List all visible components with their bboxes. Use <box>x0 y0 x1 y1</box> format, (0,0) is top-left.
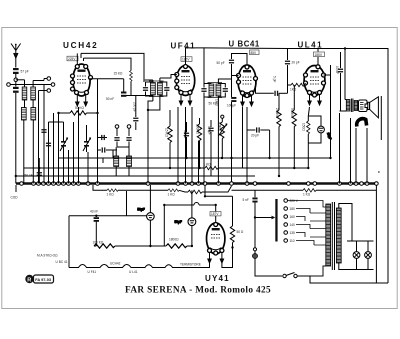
svg-text:185V: 185V <box>182 58 190 62</box>
svg-text:U L41: U L41 <box>129 270 138 274</box>
capacitor 20pF right <box>285 49 318 94</box>
wire long row 168 <box>24 167 309 169</box>
svg-text:TERMISTORE: TERMISTORE <box>180 263 201 267</box>
capacitor 100pF cathode <box>227 67 236 184</box>
wire IF2 plate feed <box>186 48 205 86</box>
switch mains <box>283 273 297 278</box>
tube UY41 <box>207 223 225 264</box>
svg-text:1 KΩ: 1 KΩ <box>204 163 212 167</box>
wire grid row 122 <box>49 121 64 123</box>
svg-text:M.A.97KΩ·OΩ: M.A.97KΩ·OΩ <box>37 254 58 258</box>
wire selector feed <box>255 218 272 236</box>
selector labels <box>290 199 299 243</box>
capacitor 25uF electrolytic <box>308 116 332 143</box>
capacitor 43nF <box>90 210 99 222</box>
svg-text:85V: 85V <box>251 51 258 55</box>
voltage selector contacts <box>284 199 288 243</box>
resistor 15K screen <box>114 71 153 96</box>
wire UY41 feed <box>164 185 232 223</box>
capacitor 5.6pF coupling <box>256 76 288 96</box>
wire col 88 <box>87 152 89 184</box>
svg-text:1800Ω: 1800Ω <box>169 238 179 242</box>
svg-text:R: R <box>27 277 31 283</box>
wire UBC41 pins down <box>243 107 248 184</box>
svg-text:FA 97-03: FA 97-03 <box>35 277 52 282</box>
main ground bus <box>16 182 375 184</box>
wire filament heater chain <box>69 248 233 268</box>
node COD ground <box>11 185 19 200</box>
svg-text:57 pF: 57 pF <box>21 70 29 74</box>
capacitor IF1 left <box>143 80 153 101</box>
svg-text:100 KΩ: 100 KΩ <box>93 241 104 245</box>
svg-text:5 pF: 5 pF <box>273 76 277 82</box>
svg-text:185V: 185V <box>315 53 323 57</box>
power transformer <box>326 202 341 270</box>
osc coil stack <box>114 147 132 176</box>
wire vertical col 53 <box>53 113 55 184</box>
svg-text:135: 135 <box>290 231 296 235</box>
svg-text:1MΩ: 1MΩ <box>215 99 219 106</box>
svg-text:10 nF: 10 nF <box>335 66 339 74</box>
svg-text:UF41: UF41 <box>171 42 197 51</box>
svg-text:1 KΩ: 1 KΩ <box>107 192 115 196</box>
capacitor on col 44 <box>41 129 46 133</box>
capacitor IF2 right <box>218 76 238 184</box>
svg-text:225V: 225V <box>68 57 76 61</box>
tube UF41 <box>175 65 195 106</box>
capacitor 50nF screen bypass <box>89 79 126 97</box>
resistor 1M vertical <box>215 99 219 106</box>
capacitor 20pF plate <box>247 127 270 158</box>
wire HT row 190 <box>93 185 376 190</box>
wire long row 158 <box>59 65 331 158</box>
wire IF1 bottom <box>148 101 160 184</box>
resistor 1K dropper A <box>107 189 119 196</box>
resistor 200K vertical <box>196 118 202 168</box>
capacitor on col 48 <box>46 143 51 147</box>
wire B+ top rail UCH42 <box>77 53 144 82</box>
tube UBC41 <box>237 65 258 106</box>
svg-text:180: 180 <box>290 207 296 211</box>
resistor 100K <box>93 241 115 249</box>
wire col 68 <box>68 150 70 184</box>
wire transformer secondary top <box>339 204 352 270</box>
selector arrow <box>272 216 276 220</box>
voltage label 185V <box>181 57 192 62</box>
wire bottom left loop <box>69 191 150 268</box>
wire smoothing loop <box>163 205 165 246</box>
wire col 97 <box>97 113 99 184</box>
resistor 15K vertical <box>165 110 173 168</box>
wire UF41 pins down <box>178 107 199 184</box>
tube UL41 <box>304 65 326 105</box>
antenna coil primary <box>16 80 27 108</box>
wire B+ rail right <box>318 49 388 284</box>
voltage label 187V <box>210 212 221 217</box>
svg-text:50 Ω: 50 Ω <box>237 230 244 234</box>
antenna <box>11 44 21 68</box>
svg-text:20 pF: 20 pF <box>292 61 300 65</box>
svg-text:50 pF: 50 pF <box>217 61 225 65</box>
capacitor 50nF lower left <box>25 158 42 184</box>
wire right columns to bus <box>340 112 374 184</box>
capacitor 100pF mid <box>208 120 214 176</box>
capacitor 5nF mains <box>243 190 258 217</box>
resistor 150 ohm cathode <box>302 121 311 168</box>
capacitor IF2 left <box>201 84 211 184</box>
logo badge FA 97-03 <box>25 275 53 284</box>
wire col 73 tube cathode <box>73 122 75 184</box>
svg-text:COD: COD <box>11 196 19 200</box>
speaker horn curve <box>357 119 367 127</box>
resistor 500K vertical <box>290 85 296 168</box>
svg-text:1 KΩ: 1 KΩ <box>303 193 311 197</box>
svg-text:FAR SERENA - Mod. Romolo: FAR SERENA - Mod. Romolo 425 <box>125 286 271 296</box>
svg-text:UCH42: UCH42 <box>63 41 98 50</box>
svg-text:220 V: 220 V <box>290 199 299 203</box>
resistor 50 ohm UY41 <box>230 196 244 247</box>
capacitor 200pF <box>132 96 138 131</box>
wire mains bottom <box>253 196 376 276</box>
resistor 1800 ohm <box>150 238 192 249</box>
resistor 1K AVC series <box>204 163 219 170</box>
capacitor osc grid <box>98 147 118 163</box>
voltage label 185V at UL41 <box>314 52 325 57</box>
resistor 6.8K volume pot <box>218 122 222 132</box>
capacitor 50uF first <box>137 185 154 246</box>
voltage label 85V <box>250 50 260 55</box>
capacitor padder <box>98 135 118 140</box>
tuning capacitor variable 1 <box>60 122 68 184</box>
tube UCH42 <box>71 64 93 106</box>
svg-text:5 nF: 5 nF <box>243 198 249 202</box>
coil lower right <box>31 108 36 184</box>
capacitor 57pF <box>13 68 29 79</box>
IF transformer 1 <box>149 81 164 97</box>
svg-text:187V: 187V <box>211 212 219 216</box>
svg-text:43 nF: 43 nF <box>90 210 98 214</box>
output transformer <box>324 65 358 112</box>
terminal circles aerial <box>7 77 55 184</box>
svg-text:UY41: UY41 <box>205 274 230 283</box>
wire col 78 tube filament <box>78 107 80 184</box>
speaker magnet block <box>359 100 368 112</box>
wire col 231 <box>231 76 233 97</box>
svg-text:1 KΩ: 1 KΩ <box>168 192 176 196</box>
capacitor IF1 right <box>160 75 177 105</box>
wire selector taps <box>288 201 326 246</box>
wire mains right <box>297 186 388 284</box>
svg-text:50 nF: 50 nF <box>106 97 114 101</box>
capacitor antenna series <box>13 82 19 184</box>
wire vertical col 58 <box>58 113 60 184</box>
wire vertical col 48 <box>48 122 50 184</box>
svg-text:50μF: 50μF <box>175 220 182 224</box>
capacitor 50uF second <box>175 190 196 246</box>
svg-text:U BC 41: U BC 41 <box>56 260 68 264</box>
resistor 50K osc <box>59 106 98 115</box>
pickup jack <box>378 96 381 172</box>
svg-text:15 KΩ: 15 KΩ <box>114 72 124 76</box>
dial lamps <box>347 241 374 270</box>
bus junction circles <box>20 182 379 186</box>
svg-text:50μF: 50μF <box>137 207 144 211</box>
node antenna junction <box>14 78 18 82</box>
wire UL41 pins down <box>308 107 319 127</box>
wire long row 176 <box>16 175 255 177</box>
svg-text:140: 140 <box>290 223 296 227</box>
capacitor 300pF <box>183 122 189 158</box>
svg-text:50 KΩ: 50 KΩ <box>75 106 85 110</box>
resistor 1K dropper B <box>168 189 180 196</box>
svg-text:20 pF: 20 pF <box>251 134 259 138</box>
selector bar <box>275 199 277 242</box>
svg-text:110: 110 <box>290 239 295 243</box>
svg-text:U F41: U F41 <box>88 270 97 274</box>
capacitor 10nF output <box>335 52 343 99</box>
svg-text:U BC41: U BC41 <box>229 40 260 49</box>
volume potentiometer <box>218 115 227 158</box>
wire osc section <box>97 79 99 113</box>
coil lower left <box>21 108 26 184</box>
wire B+ top rail mid <box>204 47 288 50</box>
capacitor 70pF <box>217 54 248 184</box>
svg-text:160: 160 <box>290 215 296 219</box>
speaker cone <box>368 97 379 118</box>
resistor 1K dropper C2 <box>179 182 233 194</box>
lamp L1 <box>353 252 360 259</box>
resistor grid UL41 <box>288 83 306 92</box>
svg-text:150Ω: 150Ω <box>302 123 306 131</box>
voltage label 225V <box>67 56 78 61</box>
svg-text:UCH42: UCH42 <box>110 262 121 266</box>
osc trimmer terminals <box>114 125 131 147</box>
IF transformer 2 <box>208 83 223 98</box>
antenna coil secondary <box>31 81 36 108</box>
svg-text:1KΩ: 1KΩ <box>290 88 297 92</box>
resistor 1K dropper D <box>303 189 316 197</box>
resistor 250K vertical <box>275 93 281 176</box>
tuning capacitor variable 2 <box>83 125 91 152</box>
lamp L2 <box>365 252 372 259</box>
